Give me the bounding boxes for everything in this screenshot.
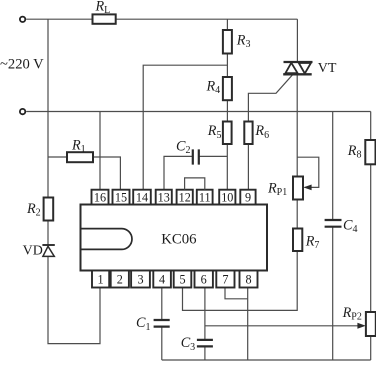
potentiometer RP1 body [293, 177, 303, 200]
svg-text:11: 11 [199, 190, 211, 204]
pin 12 box [177, 190, 193, 205]
svg-text:8: 8 [245, 273, 251, 287]
wire top rail [26, 18, 297, 20]
wire bracket pins 12-11 [185, 178, 205, 190]
wire VT down through lower rail to RP1 [296, 74, 298, 176]
wire lower rail to C4 [332, 112, 334, 220]
terminal N [20, 109, 25, 114]
wire R1 right to pin 15 [93, 157, 120, 190]
capacitor C1 plates [154, 320, 170, 327]
pin 1 box [92, 271, 109, 288]
potentiometer RP2 body [366, 312, 376, 336]
pin 3 box [131, 271, 150, 288]
wire VD down to bottom corner and up to pin 1 [48, 256, 100, 343]
capacitor C4 plates [325, 220, 342, 227]
capacitor C3 plates [197, 340, 213, 347]
wire left column [47, 19, 49, 197]
wire R6 to pin 9 [247, 144, 249, 190]
wire R3 to R4 [226, 54, 228, 78]
svg-text:10: 10 [221, 190, 233, 204]
wire C3 to bottom rail [204, 347, 206, 360]
svg-text:4: 4 [159, 273, 165, 287]
pin 4 box [153, 271, 171, 288]
wire R1 left [48, 156, 67, 158]
diode VD [42, 245, 54, 256]
svg-text:R7: R7 [305, 233, 320, 251]
pin 5 box [174, 271, 192, 288]
svg-text:~220 V: ~220 V [0, 57, 44, 73]
wire lower rail to R8 [370, 112, 372, 141]
wire RP1 to R7 [296, 200, 298, 229]
svg-text:RP2: RP2 [342, 305, 362, 323]
svg-text:6: 6 [201, 273, 207, 287]
wire R8 to RP2 [370, 164, 372, 312]
svg-text:VT: VT [318, 61, 337, 76]
resistor R8 [365, 140, 375, 164]
svg-text:7: 7 [222, 273, 228, 287]
terminal L [20, 17, 25, 22]
svg-text:14: 14 [136, 190, 148, 204]
resistor R5 [223, 122, 232, 145]
wire pin6 node to RP2 wiper [205, 325, 359, 327]
svg-text:5: 5 [179, 273, 185, 287]
wire C2 right plate to R5-pin10 node [199, 155, 227, 157]
svg-text:R8: R8 [347, 143, 362, 161]
svg-text:13: 13 [158, 190, 170, 204]
resistor R7 [293, 229, 302, 252]
svg-text:KC06: KC06 [161, 231, 196, 247]
wire lower rail [26, 111, 371, 113]
svg-text:3: 3 [137, 273, 143, 287]
resistor R4 [223, 77, 232, 100]
pin 2 box [111, 271, 129, 288]
resistor R6 [244, 122, 252, 145]
pin 10 box [219, 190, 235, 205]
svg-text:VD: VD [23, 244, 43, 259]
pin 16 box [92, 190, 109, 205]
potentiometer RP2 wiper arrowhead [357, 323, 365, 329]
wire R4 to R5 through lower rail [226, 100, 228, 122]
resistor R3 [223, 30, 232, 54]
svg-text:R2: R2 [26, 201, 41, 219]
IC notch [81, 229, 132, 250]
wire pin 7 bracket [225, 288, 248, 299]
resistor R2 [44, 198, 54, 221]
pin 14 box [133, 190, 151, 205]
svg-text:C4: C4 [343, 218, 357, 236]
pin 13 box [156, 190, 172, 205]
wire pin 8 down to bottom rail [247, 288, 249, 360]
svg-text:R3: R3 [236, 33, 251, 51]
pin 6 box [195, 271, 213, 288]
wire pin 6 down to C3 [204, 288, 206, 340]
wire R2 to VD [47, 221, 49, 246]
svg-text:C3: C3 [181, 335, 195, 353]
svg-text:C1: C1 [136, 315, 150, 333]
svg-text:R4: R4 [206, 78, 221, 96]
IC U1 body KC06 [81, 205, 268, 271]
resistor R1 [67, 152, 93, 162]
svg-text:RP1: RP1 [267, 181, 287, 199]
wire top rail corner down to VT [296, 19, 298, 62]
svg-text:RL: RL [95, 0, 111, 16]
svg-text:R1: R1 [71, 137, 86, 155]
svg-text:C2: C2 [176, 139, 190, 157]
wire C1 to bottom rail [161, 327, 163, 360]
pin 15 box [113, 190, 130, 205]
wire lower rail to pin 16 [99, 112, 101, 190]
wire RP1 wiper loop [297, 157, 319, 187]
wire R7 down, left to pin 5 [183, 251, 298, 310]
wire pin 4 to C1 [161, 288, 163, 320]
wire triac gate to R6 [248, 75, 292, 122]
svg-text:R5: R5 [207, 123, 222, 141]
svg-text:2: 2 [117, 273, 123, 287]
svg-text:16: 16 [94, 190, 106, 204]
wire RP2 to bottom rail [370, 336, 372, 360]
svg-text:9: 9 [245, 190, 251, 204]
svg-text:15: 15 [115, 190, 127, 204]
pin 8 box [240, 271, 258, 288]
pin 9 box [240, 190, 255, 205]
pin 7 box [216, 271, 234, 288]
wire top rail to R3 [226, 19, 228, 30]
potentiometer RP1 wiper arrowhead [303, 185, 311, 191]
svg-text:R6: R6 [254, 123, 269, 141]
wire R5 to pin 10 [226, 144, 228, 190]
wire C2 left plate to pin 13 [164, 156, 193, 189]
wire bottom rail [162, 359, 371, 361]
triac VT [283, 62, 312, 74]
pin 11 box [197, 190, 213, 205]
capacitor C2 plates [193, 149, 199, 164]
svg-text:1: 1 [98, 273, 104, 287]
svg-text:12: 12 [179, 190, 191, 204]
resistor RL [93, 14, 116, 23]
wire R3-R4 node branch to pin 14 [143, 65, 227, 190]
wire C4 to bottom rail [332, 227, 334, 360]
